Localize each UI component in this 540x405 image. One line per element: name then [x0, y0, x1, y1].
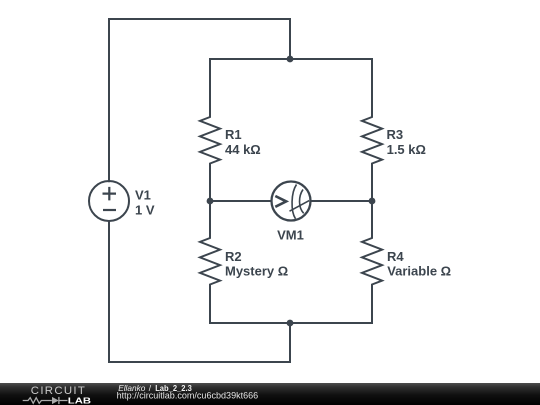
label R4 name [387, 249, 404, 264]
svg-text:R2: R2 [225, 249, 242, 264]
wire top from V1 to bridge top [109, 19, 290, 59]
node right mid [369, 198, 376, 205]
label R2 value [225, 263, 288, 278]
svg-text:R4: R4 [387, 249, 404, 264]
svg-text:R1: R1 [225, 127, 242, 142]
label V1 value [135, 203, 155, 218]
svg-text:http://circuitlab.com/cu6cbd39: http://circuitlab.com/cu6cbd39kt666 [117, 390, 259, 400]
logo CIRCUIT text [31, 385, 86, 397]
label R4 value [387, 263, 451, 278]
wire V1 top lead [108, 19, 110, 181]
resistor R2 [200, 201, 220, 323]
wire top rail [210, 58, 372, 60]
node bottom junction [287, 320, 294, 327]
label VM1 name [277, 228, 304, 243]
svg-text:Mystery Ω: Mystery Ω [225, 263, 288, 278]
label R1 name [225, 127, 242, 142]
credit author name [118, 383, 146, 393]
logo LAB text [68, 397, 91, 405]
svg-text:Variable Ω: Variable Ω [387, 263, 451, 278]
label V1 name [135, 187, 151, 202]
svg-text:1.5 kΩ: 1.5 kΩ [387, 142, 426, 157]
node top junction [287, 56, 294, 63]
wire bottom rail [210, 322, 372, 324]
logo resistor zigzag wire [23, 397, 68, 404]
label R2 name [225, 249, 242, 264]
resistor R1 [200, 59, 220, 201]
voltage source V1 [89, 181, 129, 221]
svg-text:44 kΩ: 44 kΩ [225, 142, 261, 157]
svg-text:CIRCUIT: CIRCUIT [31, 385, 86, 397]
svg-text:LAB: LAB [68, 397, 91, 405]
credit url [117, 390, 259, 400]
wire middle right [311, 200, 373, 202]
label R1 value [225, 142, 261, 157]
node left mid [207, 198, 214, 205]
svg-text:1 V: 1 V [135, 203, 155, 218]
svg-text:VM1: VM1 [277, 228, 304, 243]
resistor R4 [362, 201, 382, 323]
label R3 value [387, 142, 426, 157]
wire V1 bottom lead [108, 221, 110, 362]
logo diode triangle [52, 397, 59, 404]
footer bar [0, 383, 540, 405]
label R3 name [387, 127, 404, 142]
resistor R3 [362, 59, 382, 201]
credit separator [149, 383, 152, 393]
svg-text:V1: V1 [135, 187, 151, 202]
voltmeter VM1 [272, 182, 311, 221]
svg-text:R3: R3 [387, 127, 404, 142]
wire middle left [210, 200, 272, 202]
wire bottom return to V1 [109, 323, 290, 362]
credit title [155, 383, 192, 393]
